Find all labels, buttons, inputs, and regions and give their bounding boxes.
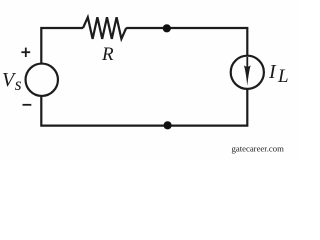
wire bottom right segment bbox=[168, 89, 248, 126]
current source arrow bbox=[244, 57, 251, 86]
wire left bottom segment bbox=[41, 96, 167, 126]
voltage source V_s bbox=[26, 64, 58, 96]
current source I_L bbox=[231, 56, 264, 89]
svg-text:gatecareer.com: gatecareer.com bbox=[232, 144, 285, 154]
svg-text:R: R bbox=[101, 44, 114, 65]
wire top-left corner segment bbox=[41, 28, 83, 64]
wire top right segment bbox=[126, 28, 247, 57]
junction dot top bbox=[163, 24, 171, 32]
svg-text:I: I bbox=[268, 61, 277, 83]
junction dot bottom bbox=[164, 121, 172, 129]
resistor R bbox=[83, 17, 126, 39]
svg-text:s: s bbox=[15, 74, 22, 94]
minus sign bbox=[23, 104, 32, 106]
svg-text:L: L bbox=[277, 66, 289, 87]
plus sign bbox=[21, 48, 30, 57]
